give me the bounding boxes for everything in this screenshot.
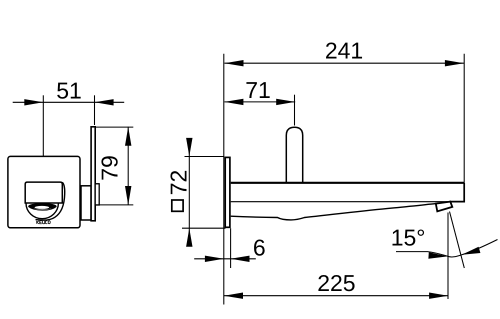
dim 51 right arrowhead	[95, 99, 114, 105]
dim 79 top arrowhead	[125, 127, 131, 146]
mounting collar	[95, 184, 99, 205]
dim 225 left arrowhead	[224, 293, 243, 299]
dim 79 dimension line	[127, 127, 129, 205]
dim 71 dimension line	[224, 101, 295, 103]
svg-text:241: 241	[325, 38, 363, 64]
dim 6 left arrowhead	[205, 256, 224, 262]
dim 71 extension line (lever pin axis)	[294, 95, 296, 126]
svg-text:72: 72	[165, 170, 191, 196]
svg-text:225: 225	[317, 270, 355, 296]
dim 71 left arrowhead	[224, 99, 243, 105]
dim 241 right arrowhead	[445, 60, 464, 66]
lever handle top body	[25, 182, 62, 203]
dim 51 dimension line	[13, 101, 125, 103]
svg-text:51: 51	[56, 77, 82, 103]
dim 6 dimension line	[194, 258, 256, 260]
lever pin (capsule)	[286, 127, 302, 183]
dim 51 extension line (wall face)	[94, 95, 96, 125]
dim 72 top extension line	[185, 156, 225, 158]
dim 241 left extension line (wall face)	[223, 54, 225, 305]
spout side lower line	[231, 201, 450, 203]
dim 71 right arrowhead	[276, 99, 295, 105]
collar top seam line	[91, 183, 99, 185]
dim 6 right arrowhead	[231, 256, 250, 262]
wall plate edge-on	[91, 127, 95, 221]
dim 79 top extension line	[96, 126, 133, 128]
svg-text:15°: 15°	[391, 225, 426, 251]
aerator nub	[436, 202, 453, 212]
dim 72 bottom extension line	[182, 227, 226, 229]
lever end lower arc	[28, 207, 56, 211]
angle arc right arrowhead	[462, 247, 481, 255]
angle arc left arrowhead	[428, 252, 447, 259]
svg-text:79: 79	[97, 155, 123, 181]
angle arc with leader	[396, 240, 498, 257]
dim 51 extension line (handle axis)	[42, 95, 44, 181]
dim 225 dimension line	[224, 295, 448, 297]
dim 241 right extension line (spout tip)	[463, 54, 465, 183]
KEUCO logo	[37, 221, 51, 224]
vertical reference line / dim 225 right extension	[447, 213, 449, 300]
svg-text:71: 71	[245, 77, 271, 103]
dim 6 extension line (plate rear face)	[230, 228, 232, 268]
lever end outer ellipse	[28, 203, 56, 209]
wall plate side view	[225, 157, 230, 227]
dim 51 left arrowhead	[24, 99, 43, 105]
water stream direction line 15 deg	[450, 212, 465, 269]
escutcheon square plate front view	[8, 156, 80, 227]
dim 72 dimension line	[188, 141, 190, 243]
dim 225 right arrowhead	[429, 293, 448, 299]
spout right end	[450, 183, 465, 202]
square-section symbol	[172, 200, 183, 211]
dim 241 left arrowhead	[225, 60, 244, 66]
lever dome	[26, 201, 58, 219]
handle hub	[81, 186, 91, 220]
lever end inner ellipse	[35, 206, 50, 209]
spout underside curve	[231, 204, 436, 220]
dim 72 top arrowhead	[186, 138, 192, 157]
dim 79 bottom arrowhead	[125, 186, 131, 205]
dim 72 bottom arrowhead	[186, 228, 192, 247]
spout top edge	[231, 182, 465, 184]
svg-text:6: 6	[253, 235, 266, 261]
dim 79 bottom extension line	[96, 204, 134, 206]
dim 241 dimension line	[225, 62, 464, 64]
lever swoosh outer edge	[36, 182, 65, 220]
